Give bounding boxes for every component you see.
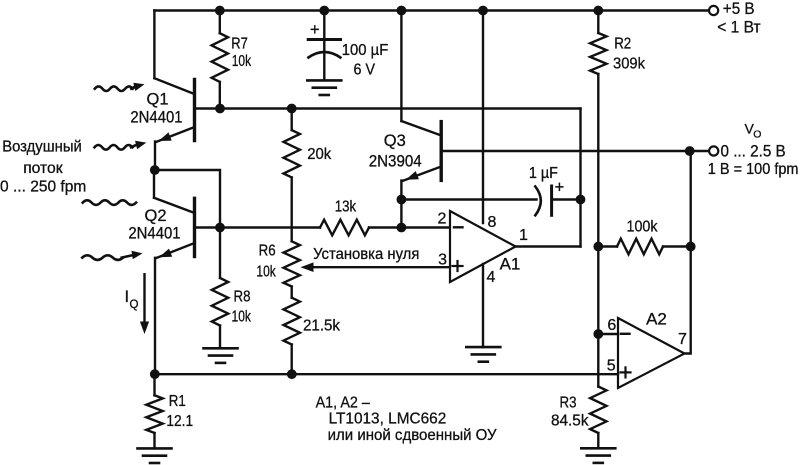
op-amp A2 [618,318,685,388]
svg-text:6: 6 [607,317,616,334]
ground under R1 [138,447,172,450]
capacitor C1 100uF [323,11,325,51]
wire Q2 base junction to 13k [220,226,320,228]
svg-text:Q3: Q3 [384,132,406,150]
resistor R8 10k [219,228,221,279]
A1 plus sign [453,265,463,267]
svg-text:или иной сдвоенный ОУ: или иной сдвоенный ОУ [328,427,498,444]
svg-text:12.1: 12.1 [166,413,193,430]
svg-text:0 ... 250 fpm: 0 ... 250 fpm [0,179,86,196]
resistor 13k [320,220,369,236]
A2 minus sign [621,333,630,335]
V_O terminal [709,146,718,155]
svg-text:поток: поток [23,160,63,177]
junction dot Q3 collector riser top [397,6,407,16]
svg-text:0 ... 2.5 В: 0 ... 2.5 В [721,143,786,161]
svg-text:2N4401: 2N4401 [128,225,180,243]
svg-text:R7: R7 [231,35,248,52]
svg-text:Q2: Q2 [144,207,166,225]
resistor 21.5k [291,287,293,298]
junction dot R7 top [215,6,225,16]
svg-text:6 V: 6 V [354,62,376,79]
resistor R1 12.1 [153,374,155,395]
base line Q1 to feedback column [220,107,581,109]
junction dot 100k right [686,242,696,252]
svg-text:309k: 309k [613,56,645,73]
transistor Q3 2N3904 [400,11,402,122]
svg-text:2N4401: 2N4401 [130,109,182,127]
svg-text:100 µF: 100 µF [342,42,389,59]
resistor R3 84.5k [597,334,599,387]
svg-text:13k: 13k [335,199,357,216]
A1 output wire pin1 [516,245,581,247]
feedback column wire [579,109,581,247]
A2 pin6 wire [598,333,618,335]
svg-text:21.5k: 21.5k [303,318,340,335]
+5V terminal [709,6,718,15]
wire 13k to A1 pin2 [369,226,450,228]
junction dot A2 pin6 [593,329,603,339]
A2 output wire pin7 [685,151,691,354]
svg-text:10k: 10k [232,309,252,326]
junction dot 21.5k bottom [287,369,297,379]
svg-text:Q1: Q1 [146,91,168,109]
svg-text:+5 В: +5 В [723,0,755,18]
Q2 emitter wire [154,258,156,374]
svg-text:10k: 10k [256,264,276,281]
A1 pin8 supply wire [482,11,484,224]
svg-text:2N3904: 2N3904 [369,153,422,171]
airflow wavy arrow 1 [95,86,133,91]
airflow wavy arrow 4 [82,255,123,260]
wire from node to Q2 base column [155,170,220,228]
svg-text:R1: R1 [169,393,186,410]
airflow wavy arrow 2 [95,145,133,150]
IQ annotation arrow [143,274,145,324]
junction dot Q3 emitter / A1 pin2 [397,223,407,233]
ground under R8 [204,347,238,350]
node: Q1 emitter / Q2 collector junction [150,165,160,175]
svg-text:5: 5 [607,358,616,375]
svg-text:R3: R3 [560,395,577,412]
svg-text:1 µF: 1 µF [529,165,558,182]
svg-text:R6: R6 [259,243,276,260]
junction dot V_O [685,146,695,156]
svg-text:A1, A2 –: A1, A2 – [316,394,370,411]
svg-text:100k: 100k [627,219,658,236]
junction dot 1uF right [576,195,586,205]
transistor Q1 2N4401 [153,11,155,79]
Q3 emitter wire [400,181,402,228]
resistor R7 [219,11,221,34]
top +5V rail [154,9,709,11]
R6 wiper arrow [301,262,314,272]
svg-text:R8: R8 [234,289,251,306]
junction dot C1 top [319,6,329,16]
potentiometer R6 10k [284,241,300,286]
junction dot 20k top [287,104,297,114]
svg-text:Q: Q [130,299,139,311]
svg-text:1 В = 100 fpm: 1 В = 100 fpm [708,161,799,178]
transistor Q2 2N4401 [153,170,155,198]
junction dot 100k left [593,242,603,252]
junction dot Q2 base / R8 / L-wire [215,223,225,233]
svg-text:2: 2 [438,211,447,228]
svg-text:+: + [310,21,320,39]
resistor 100k [598,245,617,247]
ground under C1 [307,79,341,82]
svg-text:84.5k: 84.5k [551,413,589,430]
capacitor C2 1uF [401,198,536,200]
V_O output line from Q3 base [441,150,690,152]
svg-text:10k: 10k [232,53,252,70]
svg-text:I: I [125,288,130,306]
svg-text:8: 8 [488,214,497,231]
svg-text:A2: A2 [646,310,667,329]
junction dot R2 top [593,6,603,16]
junction dot Q2 emitter / R1 [150,369,160,379]
wire wiper to A1 pin3 [311,266,450,268]
svg-text:LT1013, LMC662: LT1013, LMC662 [329,411,447,428]
ground under A1 pin4 [466,346,500,349]
resistor 20k [291,109,293,131]
svg-text:3: 3 [438,252,447,269]
svg-text:Установка нуля: Установка нуля [313,246,419,263]
resistor R2 309k [597,11,599,34]
svg-text:O: O [753,129,761,141]
svg-text:1: 1 [519,227,528,244]
A1 pin4 wire [482,264,484,347]
svg-text:Воздушный: Воздушный [2,139,82,156]
ground under R3 [581,447,615,450]
A1 minus sign [454,226,463,228]
junction dot A1 pin8 riser top [478,6,488,16]
svg-text:7: 7 [678,331,687,348]
junction dot 1uF left [397,195,407,205]
A2 plus sign [621,371,631,373]
airflow wavy line 3 [83,200,136,205]
svg-text:20k: 20k [307,146,331,163]
junction dot Q1 base/R7 [215,104,225,114]
bottom rail [155,373,618,375]
svg-text:4: 4 [487,269,496,286]
svg-text:A1: A1 [500,255,521,274]
op-amp A1 [450,211,516,282]
svg-text:R2: R2 [614,36,631,53]
svg-text:< 1 Вт: < 1 Вт [717,19,761,37]
Q1 emitter wire [154,142,156,171]
